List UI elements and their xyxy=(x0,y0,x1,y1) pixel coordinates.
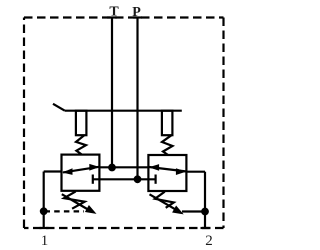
svg-text:1: 1 xyxy=(41,233,49,249)
svg-text:2: 2 xyxy=(205,233,213,249)
svg-text:T: T xyxy=(109,5,119,20)
